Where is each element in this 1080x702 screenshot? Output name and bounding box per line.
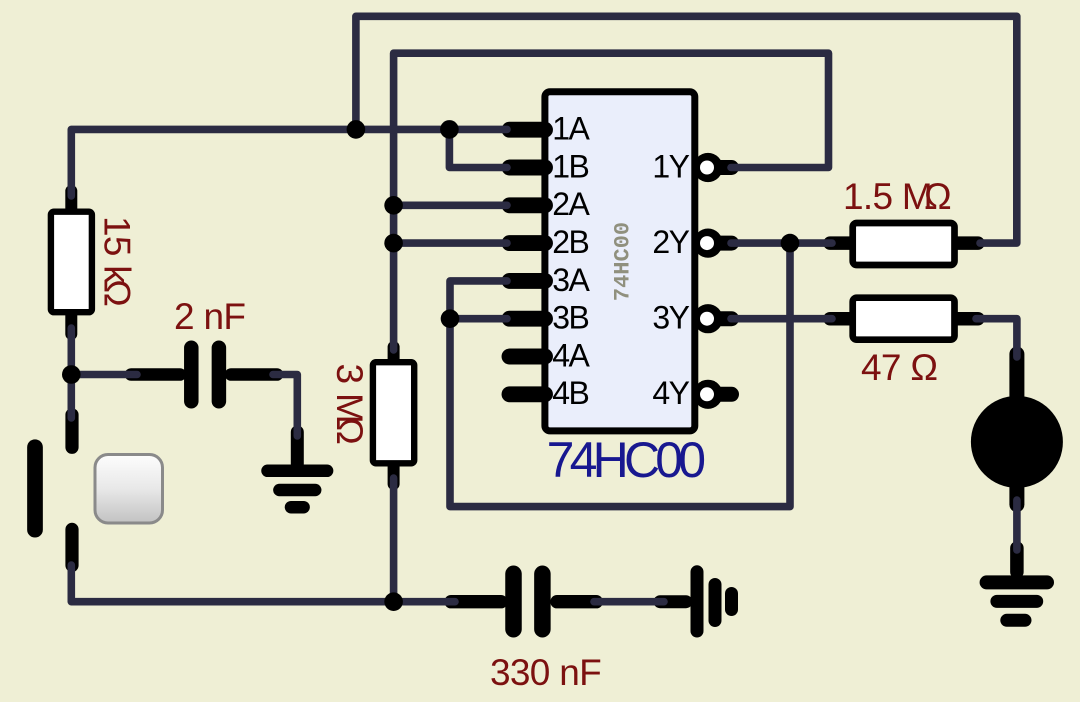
pushbutton S1 xyxy=(35,415,163,566)
wire: 3A loop to 2Y node xyxy=(450,243,790,507)
wire: 330nF right lead to rotated ground xyxy=(594,598,664,606)
wire: 3M resistor bottom to bottom node xyxy=(390,478,398,602)
svg-text:4B: 4B xyxy=(552,375,588,411)
junction node F (2Y node) xyxy=(781,234,800,253)
wire: 1Y output feedback to 3M resistor top xyxy=(394,53,829,350)
label 47 Ohm xyxy=(861,347,937,388)
resistor R1 15 kOhm (vertical, left) xyxy=(51,191,92,334)
svg-text:47 Ω: 47 Ω xyxy=(861,347,937,388)
junction node H (15k / 2nF / switch) xyxy=(62,365,81,384)
ground (below speaker) xyxy=(987,548,1047,620)
svg-text:2Y: 2Y xyxy=(652,224,689,260)
label 2 nF xyxy=(174,296,245,337)
label 15 kOhm xyxy=(97,216,138,306)
wire: branch to 2A xyxy=(394,202,507,210)
junction node D (2B branch) xyxy=(384,234,403,253)
junction node A (1A wire / top wire) xyxy=(347,120,366,139)
IC U1 pin labels left xyxy=(552,111,590,412)
svg-text:3 MΩ: 3 MΩ xyxy=(329,364,370,445)
ground (below 2 nF capacitor) xyxy=(268,432,328,507)
svg-text:1.5 MΩ: 1.5 MΩ xyxy=(843,176,951,217)
wire: branch to 2B xyxy=(394,239,507,247)
svg-text:15 kΩ: 15 kΩ xyxy=(97,216,138,306)
svg-text:3Y: 3Y xyxy=(652,300,689,336)
junction node G (bottom net / 3M) xyxy=(384,592,403,611)
IC U1 input pin stubs 1A 1B 2A 2B 3A 3B 4A 4B xyxy=(510,130,546,395)
resistor R3 1.5 MOhm (horizontal, right) xyxy=(830,223,978,265)
IC U1 output pin 2Y xyxy=(693,229,731,258)
resistor R2 3 MOhm (vertical, middle) xyxy=(373,347,414,484)
IC U1 output pin 3Y xyxy=(693,304,731,333)
wire: node H down to switch top xyxy=(68,375,76,419)
svg-text:2B: 2B xyxy=(552,224,588,260)
wire: 3Y to 47R left lead xyxy=(731,315,832,323)
svg-text:1Y: 1Y xyxy=(652,148,689,184)
svg-text:2 nF: 2 nF xyxy=(174,296,245,337)
svg-text:74HC00: 74HC00 xyxy=(611,222,636,301)
capacitor C2 330 nF (horizontal, bottom) xyxy=(451,574,596,629)
label 330 nF xyxy=(490,652,601,693)
svg-text:4Y: 4Y xyxy=(652,375,689,411)
wire: 2nF right lead to ground xyxy=(273,375,297,437)
IC U1 internal part number text xyxy=(611,222,636,301)
svg-text:1A: 1A xyxy=(552,111,590,147)
wire: elbow to 1B xyxy=(449,129,507,167)
wire: node H up to 15k bottom xyxy=(68,328,76,375)
wire: node H to 2nF left lead xyxy=(71,371,137,379)
label 3 MOhm xyxy=(329,364,370,445)
speaker LS1 xyxy=(971,354,1063,505)
ground (right of 330 nF capacitor, rotated) xyxy=(660,572,732,631)
wire: 15k top to 1A xyxy=(71,129,507,196)
resistor R4 47 Ohm (horizontal, right) xyxy=(830,298,978,340)
IC U1 74HC00 body xyxy=(545,92,695,431)
svg-text:1B: 1B xyxy=(552,148,588,184)
junction node B (1A / 1B elbow) xyxy=(440,120,459,139)
wire: 47R right lead to speaker xyxy=(976,319,1017,357)
svg-text:2A: 2A xyxy=(552,186,590,222)
wire: speaker to ground xyxy=(1013,500,1021,550)
svg-text:74HC00: 74HC00 xyxy=(547,432,705,488)
junction node E (3B branch) xyxy=(441,309,460,328)
capacitor C1 2 nF (horizontal) xyxy=(131,348,277,401)
label 1.5 MOhm xyxy=(843,176,951,217)
IC U1 label 74HC00 xyxy=(547,432,705,488)
svg-text:3B: 3B xyxy=(552,300,588,336)
IC U1 output pin 4Y xyxy=(693,380,731,409)
wire: node A to 1.5M right lead (top long wire) xyxy=(356,16,1017,243)
svg-text:3A: 3A xyxy=(552,262,590,298)
svg-text:4A: 4A xyxy=(552,337,590,373)
svg-text:330 nF: 330 nF xyxy=(490,652,601,693)
IC U1 output pin 1Y xyxy=(693,153,731,182)
wire: switch bottom to 330nF (bottom net) xyxy=(71,565,455,602)
junction node C (2A branch) xyxy=(384,196,403,215)
IC U1 pin labels right xyxy=(652,148,689,411)
wire: 2Y to 1.5M left lead xyxy=(731,239,832,247)
wire: branch to 3B xyxy=(450,315,507,323)
